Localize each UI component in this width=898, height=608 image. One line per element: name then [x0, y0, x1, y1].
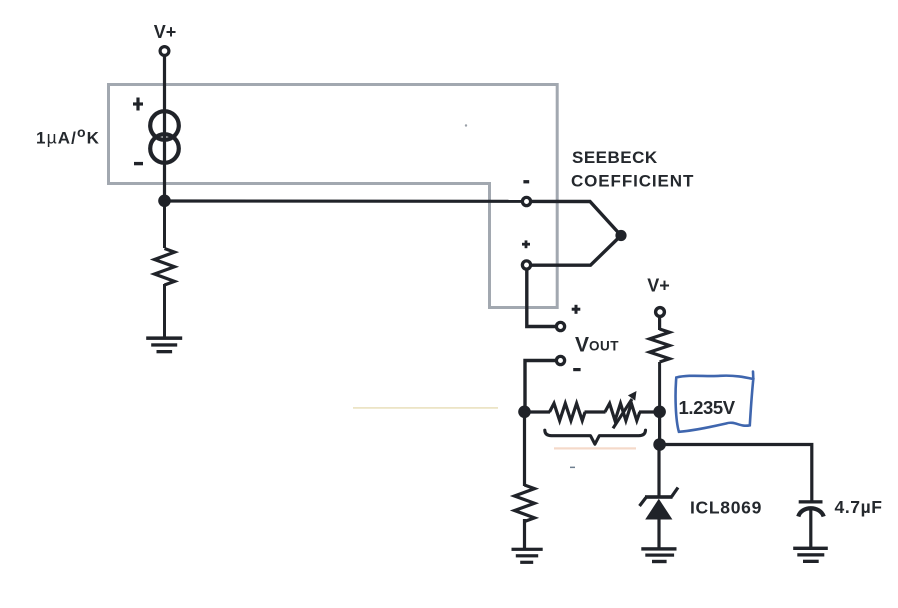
wire capacitor to ground	[809, 507, 812, 548]
wire node C to resistor R3	[523, 412, 526, 487]
node E junction dot	[653, 438, 666, 451]
wire seebeck minus terminal to node B (chevron top)	[531, 201, 621, 235]
wire zener to ground	[657, 519, 660, 548]
wire node A to seebeck minus terminal	[165, 199, 523, 203]
terminal V+ right (open circle)	[656, 308, 665, 317]
wire potentiometer to node D	[639, 410, 660, 413]
wire node D to node E	[658, 412, 661, 445]
brace (under resistors)	[545, 430, 646, 444]
wire seebeck plus down and right to VOUT plus terminal	[527, 270, 555, 327]
wire VOUT minus terminal to node C	[525, 361, 556, 412]
svg-text:1.235V: 1.235V	[679, 397, 736, 418]
tiny dash speck (scan)	[570, 467, 575, 469]
svg-text:V+: V+	[154, 22, 177, 42]
wire V+ terminal through current source to node A	[163, 56, 166, 203]
svg-text:SEEBECK: SEEBECK	[572, 148, 658, 167]
terminal V+ (top open circle)	[160, 47, 169, 56]
potentiometer arrow	[613, 391, 637, 428]
label - (VOUT)	[573, 368, 580, 371]
node A junction dot	[158, 195, 171, 208]
node C junction dot	[518, 406, 531, 419]
terminal seebeck plus (open circle)	[522, 261, 530, 269]
ground (below capacitor)	[793, 547, 828, 563]
svg-text:V+: V+	[647, 275, 670, 295]
label SEEBECK COEFFICIENT	[571, 148, 694, 190]
wire node C to resistor R4	[525, 410, 551, 413]
wire node E down to zener D1	[657, 445, 660, 497]
label + (current source)	[133, 98, 143, 111]
faint scan line	[353, 407, 498, 409]
node D junction dot	[653, 406, 666, 419]
potentiometer R5 zigzag	[605, 403, 640, 420]
node B junction dot	[615, 230, 626, 241]
svg-text:1µA/oK: 1µA/oK	[36, 124, 100, 147]
wire between R4 and potentiometer R5	[585, 410, 606, 413]
wire seebeck plus terminal to node B (chevron bottom)	[531, 236, 621, 266]
thermocouple outline (gray box)	[109, 85, 558, 308]
svg-text:COEFFICIENT: COEFFICIENT	[571, 171, 694, 190]
terminal VOUT minus (open circle)	[556, 356, 564, 364]
label - (seebeck minus)	[523, 180, 529, 183]
wire V+ terminal to resistor R2	[658, 317, 661, 331]
tiny speck (scan)	[465, 124, 467, 126]
svg-text:4.7µF: 4.7µF	[835, 497, 883, 517]
wire resistor R1 to ground	[163, 284, 166, 337]
resistor R4 (horizontal)	[550, 403, 586, 420]
resistor R1	[155, 249, 175, 285]
label + (seebeck plus)	[522, 240, 530, 248]
label + (VOUT)	[572, 305, 581, 314]
current source I1 1uA/K (two overlapping circles)	[150, 111, 179, 163]
wire node E to capacitor C1	[660, 445, 812, 501]
wire node A down to resistor R1	[163, 201, 166, 248]
terminal VOUT plus (open circle)	[556, 322, 564, 330]
resistor R2	[650, 329, 670, 362]
ground (below R3)	[512, 548, 543, 564]
ground (below R1)	[146, 336, 182, 353]
resistor R3	[515, 485, 535, 522]
faint pink smear under brace	[554, 447, 636, 449]
terminal seebeck minus (open circle)	[522, 197, 530, 205]
wire resistor R2 to node D	[658, 362, 661, 412]
hand-drawn blue box around 1.235V	[676, 372, 754, 432]
zener diode D1 ICL8069	[640, 488, 679, 520]
label - (current source)	[134, 162, 143, 165]
ground (below zener)	[641, 547, 676, 563]
capacitor C1 4.7uF	[798, 500, 823, 516]
svg-text:ICL8069: ICL8069	[690, 498, 762, 518]
wire resistor R3 to ground	[523, 519, 526, 549]
